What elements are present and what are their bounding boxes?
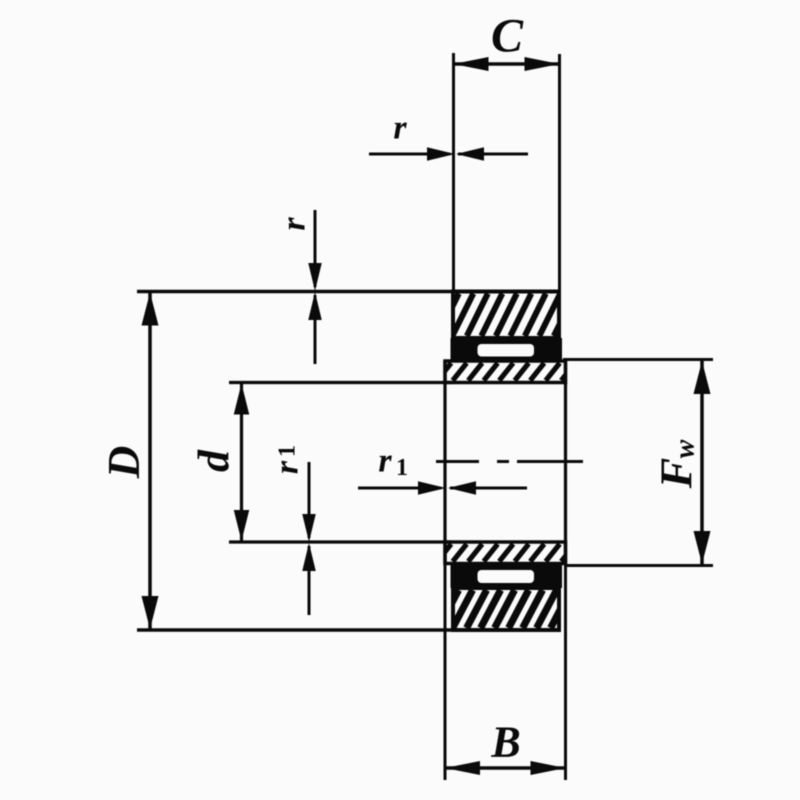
dimension D extension lines (137, 292, 455, 631)
inner ring lower section (437, 542, 591, 564)
label r1 vertical (rotated) (269, 445, 306, 474)
svg-text:d: d (190, 449, 239, 472)
svg-text:C: C (491, 10, 524, 63)
svg-text:1: 1 (396, 455, 408, 481)
svg-text:r: r (393, 110, 407, 147)
dimension Fw line with arrows (694, 360, 711, 566)
inner ring upper section (437, 361, 591, 383)
svg-text:r: r (276, 217, 313, 231)
dimension r1 vertical: converging arrows (302, 462, 316, 615)
svg-text:1: 1 (275, 445, 301, 457)
dimension d line with arrows (234, 383, 250, 543)
svg-text:r: r (378, 443, 392, 480)
svg-text:r: r (269, 460, 306, 474)
dimension r top: lines with converging arrows (369, 147, 528, 161)
svg-text:F: F (651, 458, 702, 490)
label r1 horizontal (378, 443, 408, 482)
dimension D line with arrows (142, 292, 159, 631)
svg-text:B: B (490, 718, 520, 767)
dimension B line with arrows (445, 761, 566, 775)
needle roller and cage lower (451, 564, 563, 589)
svg-text:w: w (670, 439, 701, 458)
dimension r1 horizontal: converging arrows (358, 481, 527, 495)
inner ring right face line (564, 361, 567, 564)
outer ring lower section (439, 588, 599, 630)
outer ring upper section (438, 292, 590, 339)
dimension r left: vertical converging arrows (308, 210, 322, 364)
svg-text:D: D (99, 446, 149, 480)
dimension d extension lines (229, 383, 452, 543)
centerline (436, 460, 583, 463)
label Fw (rotated) (651, 439, 702, 489)
needle roller and cage upper (451, 338, 563, 361)
dimension C line with arrows (454, 57, 560, 71)
dimension B extension lines (445, 564, 566, 781)
dimension Fw extension lines (563, 360, 713, 566)
inner ring left face line (443, 361, 446, 564)
dimension C extension lines (454, 53, 560, 292)
